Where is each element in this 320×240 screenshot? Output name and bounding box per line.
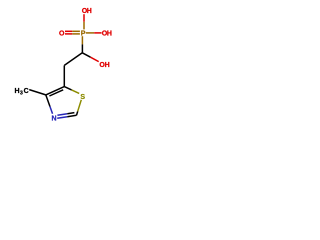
wire CH2-C5 [63, 65, 65, 86]
wire P-C1 orange half [81, 36, 83, 44]
svg-text:3: 3 [20, 91, 23, 97]
wire C4=C5 double bond outer line [46, 87, 65, 95]
wire C4-N blue half [50, 107, 53, 114]
svg-text:N: N [51, 116, 56, 123]
wire C5-S black half [64, 87, 71, 90]
svg-text:O: O [59, 30, 65, 37]
wire P=O double bond lower line red half [65, 33, 72, 35]
svg-text:C: C [24, 88, 29, 95]
wire P=O double bond lower line orange half [72, 33, 80, 35]
wire C2-S black half [77, 111, 78, 115]
wire O(top)-P orange half [83, 22, 85, 30]
wire N=C2 double bond inner line blue half [57, 114, 67, 116]
wire N=C2 double bond outer line black half [67, 115, 76, 116]
wire N=C2 double bond inner line black half [67, 113, 74, 114]
wire C4-N black half [46, 95, 50, 107]
svg-text:H: H [14, 88, 19, 95]
wire P-C1 black half [81, 44, 83, 52]
svg-text:H: H [105, 62, 110, 69]
wire C2-S olive half [78, 100, 82, 112]
wire C1-OH black half [82, 53, 90, 57]
svg-text:P: P [81, 31, 86, 38]
wire O(top)-P red half [83, 14, 85, 22]
svg-text:S: S [80, 94, 85, 101]
wire C5-S olive half [72, 90, 80, 94]
chemical structure: 1-hydroxy-2-(4-methyl-1,3-thiazol-5-yl)ethylphosphonic acid [0, 0, 130, 130]
wire P=O double bond upper line red half [65, 30, 72, 32]
wire P-OH(right) red half [94, 32, 101, 34]
wire N=C2 double bond outer line blue half [57, 117, 67, 119]
wire CH3-C4 [29, 90, 46, 95]
wire P-OH(right) orange half [86, 32, 94, 34]
svg-text:H: H [107, 31, 112, 38]
wire C4=C5 double bond inner line [49, 90, 63, 96]
wire C1-OH red half [91, 57, 99, 61]
svg-text:H: H [87, 8, 92, 15]
wire P=O double bond upper line orange half [72, 30, 80, 32]
wire C1-CH2 [64, 53, 82, 66]
